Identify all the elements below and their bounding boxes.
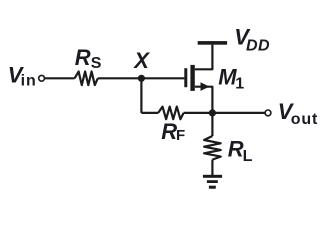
svg-text:R: R bbox=[75, 45, 91, 70]
svg-text:in: in bbox=[21, 73, 37, 90]
svg-text:1: 1 bbox=[235, 76, 244, 93]
ground bar 1 bbox=[203, 175, 222, 178]
transistor M1 drain lead bbox=[195, 45, 213, 70]
transistor M1 gate bar bbox=[184, 68, 187, 87]
svg-text:F: F bbox=[176, 127, 185, 144]
svg-text:X: X bbox=[132, 48, 150, 73]
wire output node to Vout terminal bbox=[212, 112, 265, 114]
resistor RS bbox=[75, 72, 98, 86]
svg-text:R: R bbox=[161, 119, 177, 144]
resistor RF bbox=[158, 107, 183, 120]
ground bar 3 bbox=[209, 186, 216, 189]
svg-text:R: R bbox=[228, 136, 244, 161]
svg-text:S: S bbox=[91, 55, 102, 72]
output node junction dot bbox=[209, 109, 216, 116]
resistor RL bbox=[204, 136, 221, 160]
wire node X down bbox=[140, 78, 142, 113]
node X junction dot bbox=[138, 75, 145, 82]
terminal Vout bbox=[265, 110, 271, 116]
svg-text:L: L bbox=[243, 148, 253, 165]
wire RL to ground bbox=[211, 160, 213, 176]
svg-text:DD: DD bbox=[246, 38, 270, 55]
terminal Vin bbox=[39, 75, 45, 81]
transistor M1 channel bar bbox=[190, 65, 194, 91]
transistor M1 source arrow bbox=[201, 82, 210, 91]
wire Vin to RS bbox=[45, 77, 75, 79]
transistor M1 source lead bbox=[195, 87, 213, 113]
wire to RF bbox=[141, 112, 158, 114]
wire RS to gate (through node X) bbox=[98, 77, 185, 79]
svg-text:out: out bbox=[291, 111, 318, 128]
wire RF to output node bbox=[184, 112, 213, 114]
power VDD bar bbox=[198, 41, 227, 45]
ground bar 2 bbox=[207, 180, 218, 183]
wire node to RL bbox=[211, 113, 213, 136]
